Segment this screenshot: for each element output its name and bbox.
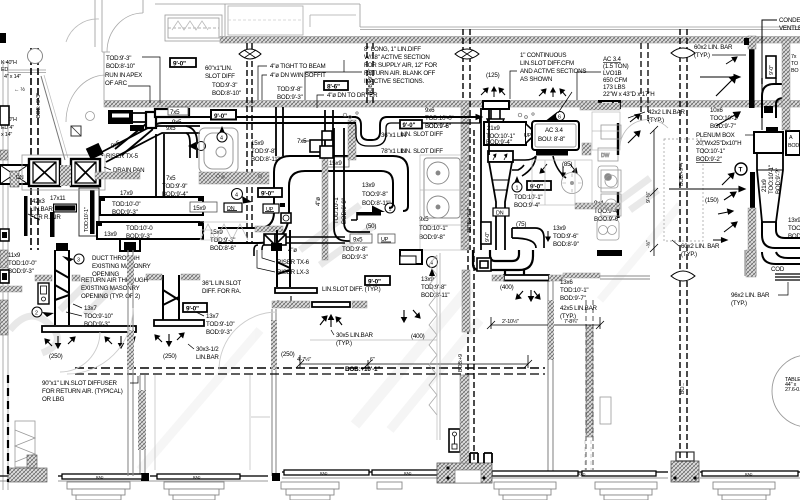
svg-text:BOD:9'-3": BOD:9'-3" bbox=[112, 209, 138, 216]
svg-text:(150): (150) bbox=[705, 197, 719, 204]
svg-text:TOD:10'-1": TOD:10'-1" bbox=[84, 207, 90, 232]
svg-text:15x9: 15x9 bbox=[329, 160, 342, 167]
svg-text:42x5 LIN.BAR: 42x5 LIN.BAR bbox=[560, 305, 598, 312]
svg-text:8'-8": 8'-8" bbox=[57, 207, 69, 213]
lin bar grille vertical bbox=[24, 196, 75, 236]
svg-text:(85): (85) bbox=[562, 161, 572, 168]
svg-text:AS SHOWN: AS SHOWN bbox=[520, 76, 552, 83]
grille G2 bbox=[71, 159, 100, 186]
svg-text:UP: UP bbox=[266, 207, 274, 213]
riser 17x11 vertical label block bbox=[79, 188, 99, 236]
circled 4 pin bbox=[427, 257, 438, 277]
boxed 9'-0" room2 bbox=[183, 303, 207, 313]
svg-text:TOD:9'-9": TOD:9'-9" bbox=[162, 183, 187, 190]
wall hatch below bar bbox=[748, 208, 756, 260]
svg-text:4" x 14": 4" x 14" bbox=[4, 74, 21, 80]
90x1 lin slot diffuser note bbox=[42, 376, 138, 403]
svg-text:TOD:10'-0: TOD:10'-0 bbox=[126, 225, 153, 232]
wall left room divider bbox=[140, 375, 145, 476]
svg-text:60"x1"LIN.: 60"x1"LIN. bbox=[205, 65, 233, 72]
boxed 9'-0" mid right bbox=[365, 276, 390, 286]
left black duct bbox=[0, 106, 28, 187]
svg-text:96x2 LIN. BAR: 96x2 LIN. BAR bbox=[731, 292, 770, 299]
column line C5 bbox=[671, 29, 695, 461]
svg-text:TOD:10'-0": TOD:10'-0" bbox=[8, 260, 36, 267]
svg-text:13x9: 13x9 bbox=[421, 276, 434, 283]
svg-text:TOD:9'-6": TOD:9'-6" bbox=[553, 233, 578, 240]
svg-text:(400): (400) bbox=[500, 284, 514, 291]
lin bar lines right bbox=[775, 274, 800, 280]
svg-text:36"L LIN.SLOT: 36"L LIN.SLOT bbox=[202, 280, 241, 287]
svg-text:BOB:+9'-4": BOB:+9'-4" bbox=[679, 161, 685, 186]
svg-text:RISER LX-3: RISER LX-3 bbox=[277, 269, 309, 276]
svg-text:TOD:10'-1": TOD:10'-1" bbox=[560, 287, 588, 294]
boxed 8'-6" bbox=[324, 81, 348, 91]
condensate label top-right bbox=[762, 17, 800, 130]
svg-text:TOD:9'-8": TOD:9'-8" bbox=[421, 284, 446, 291]
svg-text:BOD:8'-10": BOD:8'-10" bbox=[212, 90, 241, 97]
svg-text:AC 3.4: AC 3.4 bbox=[603, 56, 621, 63]
svg-text:TOO:: TOO: bbox=[788, 225, 800, 232]
plenum dashed outline right bbox=[664, 139, 703, 241]
svg-text:7'-8¾": 7'-8¾" bbox=[564, 319, 578, 325]
kitchen wall hatch jog upper bbox=[348, 120, 356, 160]
svg-text:9'-0": 9'-0" bbox=[214, 113, 227, 120]
column line C6 chase bbox=[586, 300, 593, 470]
partial AC box right edge bbox=[786, 131, 800, 155]
svg-text:K 40"H: K 40"H bbox=[1, 60, 17, 66]
COD corner elbow far right bbox=[762, 252, 800, 264]
svg-text:INACTIVE SECTIONS.: INACTIVE SECTIONS. bbox=[364, 78, 424, 85]
30x3 label bbox=[188, 344, 219, 361]
svg-text:BOD:8'-10": BOD:8'-10" bbox=[106, 63, 135, 70]
svg-text:11x9: 11x9 bbox=[8, 252, 21, 259]
svg-text:TOD:9'-10": TOD:9'-10" bbox=[206, 321, 234, 328]
thermostat box bottom center bbox=[449, 429, 460, 452]
13x9 label far right bbox=[788, 217, 800, 240]
right room wall bbox=[600, 250, 756, 279]
cabinet bbox=[165, 15, 222, 41]
DN boxed bbox=[493, 208, 509, 217]
svg-text:x 14": x 14" bbox=[1, 132, 12, 138]
door pivot blobs bbox=[141, 473, 149, 481]
svg-text:OPENING (TYP. OF 2): OPENING (TYP. OF 2) bbox=[81, 293, 140, 300]
kitchen counters light bbox=[420, 112, 620, 250]
svg-text:6": 6" bbox=[370, 357, 375, 363]
vertical duct pair 15x9 top bbox=[325, 110, 370, 241]
pier chase 2 bbox=[671, 452, 699, 482]
svg-text:TOO:9'-10": TOO:9'-10" bbox=[84, 313, 113, 320]
right mid: 13x9 label bbox=[421, 276, 449, 299]
duct right of trunk down bbox=[389, 186, 408, 211]
svg-text:TOD:9'-8": TOD:9'-8" bbox=[342, 246, 367, 253]
svg-text:A: A bbox=[789, 135, 793, 141]
black bar short bbox=[50, 212, 55, 237]
column line C1 bbox=[28, 48, 43, 250]
label 11x9 block bbox=[8, 252, 36, 275]
svg-text:TOD:9'-8": TOD:9'-8" bbox=[251, 148, 276, 155]
svg-text:22"W x 43"D x 17"H: 22"W x 43"D x 17"H bbox=[603, 91, 654, 98]
svg-text:LIN: LIN bbox=[397, 148, 406, 155]
boxed 9'-0" top bbox=[170, 58, 196, 68]
circled 3 bbox=[62, 254, 84, 264]
svg-text:8'-6": 8'-6" bbox=[327, 84, 340, 91]
fixture black at band right bbox=[598, 100, 621, 109]
svg-text:FOR SUPPLY AIR, 12" FOR: FOR SUPPLY AIR, 12" FOR bbox=[364, 62, 438, 69]
right top elbow duct bbox=[762, 78, 790, 118]
svg-text:ED 4": ED 4" bbox=[1, 125, 14, 131]
column line mid dashed bbox=[468, 130, 474, 463]
left edge black tick top bbox=[0, 33, 6, 43]
svg-text:BOD: BOD bbox=[788, 233, 800, 240]
svg-text:RAD: RAD bbox=[745, 473, 753, 477]
60x2 lin bar bottom right bbox=[672, 240, 720, 258]
svg-text:RUN IN APEX: RUN IN APEX bbox=[105, 72, 142, 79]
hatched block bottom-left bbox=[8, 468, 47, 482]
svg-text:BOD:9'-?": BOD:9'-?" bbox=[775, 168, 782, 194]
svg-text:DW: DW bbox=[601, 153, 610, 159]
duct 17x9 horizontal bbox=[100, 190, 203, 216]
bottom structure: room dividers bbox=[140, 276, 553, 476]
svg-text:7x5: 7x5 bbox=[297, 138, 307, 145]
42x2 lin bar label bbox=[628, 109, 686, 124]
svg-text:30x3-1/2: 30x3-1/2 bbox=[196, 346, 219, 353]
triangle above circled 1 bbox=[514, 176, 520, 183]
riser box below bbox=[120, 239, 140, 251]
lin diff black bar right bbox=[749, 49, 755, 108]
damper triangle on vertical duct bbox=[188, 142, 196, 150]
svg-text:9'-0": 9'-0" bbox=[173, 61, 186, 68]
4in tight to beam bbox=[258, 63, 326, 100]
svg-text:(250): (250) bbox=[49, 353, 63, 360]
left outer wall bbox=[3, 62, 8, 490]
svg-text:42x2 LIN.BAR: 42x2 LIN.BAR bbox=[648, 109, 686, 116]
column line C4 bbox=[455, 29, 479, 250]
svg-text:9'-0": 9'-0" bbox=[769, 65, 775, 75]
13x6 label right bbox=[560, 279, 588, 302]
5 box symbol bbox=[281, 213, 291, 223]
table circle bottom right bbox=[772, 355, 800, 427]
7x small labels top right bbox=[791, 54, 798, 74]
svg-text:T: T bbox=[739, 167, 743, 174]
svg-text:17x9: 17x9 bbox=[120, 190, 133, 197]
arrows below diffuser 2 bbox=[278, 296, 293, 308]
96x2 lin bar label bbox=[731, 282, 788, 307]
7x5 box label corridor bbox=[168, 107, 188, 116]
svg-text:BOD:9'-7": BOD:9'-7" bbox=[710, 123, 736, 130]
small black box on duct bbox=[130, 125, 144, 131]
svg-text:173 LBS: 173 LBS bbox=[603, 84, 625, 91]
svg-text:RISER TX-6: RISER TX-6 bbox=[277, 259, 310, 266]
svg-text:13x9: 13x9 bbox=[362, 182, 375, 189]
long arrow to lin bar bbox=[700, 57, 740, 80]
svg-text:TOD:10'-1": TOD:10'-1" bbox=[514, 194, 542, 201]
svg-text:DIFF. FOR RA.: DIFF. FOR RA. bbox=[202, 288, 241, 295]
funnel duct vertical bbox=[488, 151, 513, 250]
svg-text:BOD:9'-3": BOD:9'-3" bbox=[8, 268, 34, 275]
small diamond box bbox=[71, 126, 81, 136]
svg-text:(TYP.): (TYP.) bbox=[694, 52, 710, 59]
svg-text:(1.5 TON): (1.5 TON) bbox=[603, 63, 629, 70]
rotated 21x9 text right bbox=[761, 165, 782, 194]
radiator bars in sill bbox=[62, 470, 798, 479]
interior partitions upper-left bbox=[102, 0, 110, 100]
svg-text:AND ACTIVE SECTIONS: AND ACTIVE SECTIONS bbox=[520, 68, 586, 75]
svg-text:LIN. SLOT DIFF: LIN. SLOT DIFF bbox=[401, 148, 443, 155]
21x9 duct box bbox=[484, 122, 536, 146]
UP boxed center bbox=[263, 204, 279, 213]
top-center corridor texts bbox=[105, 55, 160, 103]
svg-text:10x6: 10x6 bbox=[710, 107, 723, 114]
L-duct top left of K bbox=[400, 250, 422, 264]
svg-text:EXISTING MASONRY: EXISTING MASONRY bbox=[81, 285, 140, 292]
svg-text:9'-0": 9'-0" bbox=[368, 279, 381, 286]
svg-text:1: 1 bbox=[516, 186, 519, 192]
15x9 TOD label below bbox=[210, 229, 236, 252]
svg-text:LVO1B: LVO1B bbox=[603, 70, 622, 77]
left edge black square low bbox=[0, 229, 9, 241]
circled 1 flag bbox=[372, 203, 395, 213]
svg-text:13x9: 13x9 bbox=[104, 231, 117, 238]
wall hatch top corridor bbox=[220, 37, 800, 44]
top edge double line bbox=[360, 27, 800, 30]
hatch patches on left wall bbox=[127, 255, 134, 285]
svg-text:RAD: RAD bbox=[193, 476, 201, 480]
plenum box note bbox=[696, 132, 754, 163]
svg-text:AC 3.4: AC 3.4 bbox=[545, 127, 563, 134]
svg-text:1" CONTINUOUS: 1" CONTINUOUS bbox=[520, 52, 566, 59]
svg-text:RAD: RAD bbox=[578, 473, 586, 477]
arrows upleft cluster right bbox=[628, 114, 640, 143]
wall band left rooms bbox=[35, 275, 52, 281]
top small ducts above corridor x283 bbox=[276, 107, 283, 156]
arrows up cluster 2 bbox=[539, 88, 566, 97]
small circles deco corridor bbox=[343, 112, 534, 119]
top-left room wall bbox=[94, 0, 96, 47]
svg-text:BOU: 8'-8": BOU: 8'-8" bbox=[538, 136, 565, 143]
AC 3.4 spec note bbox=[577, 56, 654, 100]
svg-text:2'-10½": 2'-10½" bbox=[502, 318, 519, 325]
9x4 label right bbox=[594, 200, 620, 223]
13x9 label bottom kitchen bbox=[553, 225, 579, 248]
horizontal dashed BOB line bottom-left bbox=[75, 367, 545, 369]
svg-text:9'-0": 9'-0" bbox=[485, 232, 491, 242]
svg-text:BOD:9'-7": BOD:9'-7" bbox=[560, 295, 586, 302]
svg-text:BOB:+9'-3": BOB:+9'-3" bbox=[36, 93, 42, 118]
svg-text:15x9: 15x9 bbox=[193, 205, 206, 212]
svg-text:SLOT DIFF: SLOT DIFF bbox=[205, 73, 235, 80]
faint room lines bottom bbox=[155, 255, 591, 470]
circled 2 bbox=[32, 307, 54, 317]
bathtub bbox=[199, 128, 238, 173]
svg-text:LIN. SLOT DIFF: LIN. SLOT DIFF bbox=[401, 131, 443, 138]
T circle bbox=[735, 163, 747, 175]
svg-text:BOD:9'-2": BOD:9'-2" bbox=[696, 156, 722, 163]
black tab right bbox=[764, 106, 773, 113]
svg-text:7x5: 7x5 bbox=[170, 109, 180, 116]
svg-text:13x6: 13x6 bbox=[560, 279, 573, 286]
riser 3 middle-left bbox=[163, 275, 179, 320]
60x2 lin bar label bbox=[694, 44, 746, 59]
svg-text:(75): (75) bbox=[516, 221, 526, 228]
svg-text:9x5: 9x5 bbox=[166, 125, 176, 132]
svg-text:BOD:9'-3": BOD:9'-3" bbox=[84, 321, 110, 328]
svg-text:TOO:9'-8": TOO:9'-8" bbox=[362, 191, 388, 198]
rotated TOD text center bbox=[315, 196, 348, 224]
svg-text:4"ø TIGHT TO BEAM: 4"ø TIGHT TO BEAM bbox=[270, 63, 325, 70]
svg-text:BOB:+9'-4": BOB:+9'-4" bbox=[467, 207, 473, 232]
svg-text:13x7: 13x7 bbox=[206, 313, 219, 320]
svg-text:9'-⅜": 9'-⅜" bbox=[646, 191, 652, 203]
hatch patches right edge bbox=[782, 40, 790, 130]
boxed 9'-0" corridor bbox=[211, 110, 236, 120]
svg-text:(50): (50) bbox=[366, 223, 376, 230]
svg-text:78"x1: 78"x1 bbox=[381, 148, 396, 155]
4in dn to dryer bbox=[317, 92, 378, 108]
svg-text:OR LBG: OR LBG bbox=[42, 396, 65, 403]
wall divider 3 bbox=[548, 276, 553, 474]
svg-text:8" LONG, 1" LIN.DIFF: 8" LONG, 1" LIN.DIFF bbox=[364, 46, 421, 53]
10x6 label right bbox=[710, 107, 739, 130]
riser duct down left (tile I) bbox=[55, 250, 69, 325]
svg-text:7x: 7x bbox=[791, 54, 797, 60]
svg-text:PLENUM BOX: PLENUM BOX bbox=[696, 132, 735, 139]
13x9 labels right of trunk bbox=[362, 182, 390, 207]
svg-text:13x7: 13x7 bbox=[84, 305, 97, 312]
right vertical wall hatch x750 bbox=[748, 36, 756, 49]
svg-text:CONDE: CONDE bbox=[779, 17, 800, 24]
closet zigzag center bbox=[200, 222, 248, 240]
door arc right area bbox=[620, 120, 668, 146]
svg-text:(250): (250) bbox=[281, 351, 295, 358]
svg-text:BOD:8'-9": BOD:8'-9" bbox=[553, 241, 579, 248]
svg-text:17x11: 17x11 bbox=[50, 195, 66, 202]
vertical boxed 9'-0" right bbox=[766, 56, 776, 78]
hatch between grilles bbox=[60, 165, 71, 186]
VAV black box corridor left bbox=[108, 110, 146, 124]
second door arc top-left bbox=[66, 19, 99, 42]
svg-text:7x5: 7x5 bbox=[166, 175, 176, 182]
svg-text:TOO:10'-1": TOO:10'-1" bbox=[768, 165, 775, 194]
svg-text:2: 2 bbox=[35, 311, 38, 317]
svg-text:DN: DN bbox=[16, 175, 24, 181]
7x5 connection top bbox=[310, 131, 333, 158]
burner circles left kitchen bbox=[424, 158, 460, 218]
svg-text:TO: TO bbox=[791, 61, 798, 67]
goalpost marks above pier1 bbox=[470, 453, 492, 463]
left wall labels bbox=[1, 60, 25, 138]
vertical duct pair left of funnel bbox=[481, 108, 489, 250]
60x1 lin slot label bbox=[205, 65, 241, 97]
hatch wall segment left-center bbox=[255, 226, 283, 232]
svg-text:(TYP.): (TYP.) bbox=[681, 251, 697, 258]
vertical duct to D1 bbox=[156, 134, 164, 198]
13x7 label left bbox=[66, 304, 113, 328]
diffuser flange 2 bbox=[275, 288, 317, 293]
svg-text:RAD: RAD bbox=[404, 472, 412, 476]
elbow down from 9x5 horizontal bbox=[186, 126, 197, 158]
faint door arcs bottom rooms bbox=[60, 308, 277, 374]
svg-text:4"ø: 4"ø bbox=[315, 197, 322, 206]
svg-text:BOD:8'-6": BOD:8'-6" bbox=[210, 245, 236, 252]
svg-text:COD: COD bbox=[771, 266, 785, 273]
svg-text:4"ø DN W/IN SOFFIT: 4"ø DN W/IN SOFFIT bbox=[270, 72, 326, 79]
gray room outline bottom right bbox=[600, 397, 611, 424]
pier chase 1 bbox=[437, 463, 492, 483]
svg-text:BOD:9'-3": BOD:9'-3" bbox=[277, 94, 303, 101]
kitchen wall hatch vertical x325 bbox=[322, 152, 328, 260]
42x5 lin bar bbox=[560, 305, 598, 320]
bottom wall line with windows bbox=[0, 472, 800, 481]
riser TX-5 diagonal duct 9x5 bbox=[86, 126, 200, 162]
svg-text:20"Wx25"Dx10"H: 20"Wx25"Dx10"H bbox=[696, 140, 741, 147]
svg-text:TOD:9'-3": TOD:9'-3" bbox=[212, 82, 237, 89]
svg-text:RAD: RAD bbox=[320, 472, 328, 476]
9x5 label mid-left kitchen bbox=[419, 216, 447, 241]
circled 1 + labels kitchen bbox=[512, 182, 542, 209]
duct 7x5 label right bbox=[162, 175, 188, 198]
window sills bottom bbox=[67, 482, 775, 500]
TOD 9-8 label bbox=[277, 86, 303, 101]
svg-text:BOD:9'-8": BOD:9'-8" bbox=[419, 234, 445, 241]
15x9 duct label mid bbox=[327, 157, 349, 167]
svg-text:BOD:9'-3": BOD:9'-3" bbox=[342, 254, 368, 261]
svg-text:TOD:10'-1": TOD:10'-1" bbox=[333, 196, 340, 224]
svg-text:OF ARC: OF ARC bbox=[105, 80, 128, 87]
plenum box drawn bbox=[754, 127, 783, 153]
svg-text:BOB:+10'-1": BOB:+10'-1" bbox=[345, 366, 380, 373]
svg-text:9'-0": 9'-0" bbox=[403, 123, 416, 129]
svg-text:← ½: ← ½ bbox=[14, 86, 25, 93]
kitchen fixtures right gray bbox=[597, 148, 619, 240]
duct through masonry note bbox=[92, 255, 151, 278]
dimension line right x654 bbox=[650, 126, 658, 256]
svg-text:650 CFM: 650 CFM bbox=[603, 77, 627, 84]
13x7 label 2 bbox=[196, 312, 234, 336]
appliance boxes left of right wall bbox=[601, 125, 621, 216]
svg-text:15x9: 15x9 bbox=[251, 140, 264, 147]
svg-text:9'-0": 9'-0" bbox=[186, 306, 199, 313]
drain pan label bbox=[104, 167, 144, 174]
riser tx-5 label bbox=[96, 151, 139, 160]
label 17x11 + boxed 8'-8" bbox=[50, 195, 77, 213]
svg-text:UP: UP bbox=[524, 133, 532, 139]
svg-text:RETURN AIR THROUGH: RETURN AIR THROUGH bbox=[81, 277, 148, 284]
column line C3 bbox=[367, 43, 373, 103]
splay wall diagonal bbox=[41, 76, 65, 160]
grille G1 bbox=[22, 155, 105, 190]
thermostat box left bbox=[38, 283, 49, 304]
big elbow duct top center-right bbox=[473, 250, 533, 275]
column line C2 bbox=[239, 43, 261, 244]
trunk duct curve center bbox=[274, 156, 408, 212]
svg-text:(250): (250) bbox=[163, 353, 177, 360]
svg-text:FOR RETURN AIR. (TYPICAL): FOR RETURN AIR. (TYPICAL) bbox=[42, 388, 123, 395]
diffuser flange left bbox=[42, 326, 136, 332]
svg-text:BO: BO bbox=[791, 68, 798, 74]
svg-text:13x9: 13x9 bbox=[788, 217, 800, 224]
svg-text:RAD: RAD bbox=[96, 476, 104, 480]
funnel duct right bbox=[757, 153, 783, 222]
svg-text:60x2 LIN. BAR: 60x2 LIN. BAR bbox=[694, 44, 733, 51]
arrows up cluster 1 bbox=[481, 87, 505, 97]
svg-text:BO...: BO... bbox=[680, 383, 686, 394]
accordion closet doors bbox=[429, 253, 440, 440]
wall hatch at diffuser 3 bbox=[492, 275, 504, 281]
svg-text:27.6-0.3: 27.6-0.3 bbox=[785, 387, 800, 393]
arrows below mid diffuser bbox=[320, 315, 342, 327]
TOD bottom center bbox=[342, 246, 368, 261]
